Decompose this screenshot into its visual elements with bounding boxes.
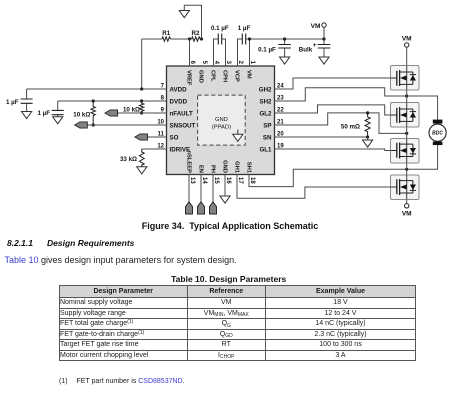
svg-text:24: 24 — [277, 84, 284, 90]
svg-text:GL1: GL1 — [259, 146, 272, 153]
connector tag SO — [135, 134, 148, 140]
wire: pin 6 VREF stub — [189, 39, 191, 66]
svg-text:GND: GND — [198, 70, 204, 83]
svg-text:0.1 µF: 0.1 µF — [211, 25, 229, 32]
svg-text:PH: PH — [209, 165, 215, 173]
svg-text:SP: SP — [263, 122, 271, 129]
resistor R3 10k (nFAULT pullup) — [139, 101, 143, 113]
svg-text:22: 22 — [277, 108, 284, 114]
wire: SH1 net — [249, 145, 438, 187]
wire: PH stub pin 15 — [212, 175, 214, 202]
motor BDC — [429, 120, 446, 146]
ground (pin 16) — [220, 196, 230, 203]
resistor R5 33k (IDRIVE) — [139, 149, 144, 167]
svg-text:(PPAD): (PPAD) — [212, 125, 231, 131]
capacitor C3 0.1uF bypass — [278, 37, 291, 57]
node SH1 junction — [405, 168, 408, 171]
transistor Q4 (high-side 1) — [391, 175, 420, 200]
wire: SO net — [147, 136, 166, 138]
svg-text:GND: GND — [215, 117, 228, 123]
svg-text:SH2: SH2 — [259, 98, 272, 105]
svg-text:21: 21 — [277, 120, 284, 126]
svg-text:Bulk: Bulk — [299, 46, 313, 53]
node VREF junction — [188, 37, 191, 40]
resistor R2 — [192, 37, 200, 41]
connector tag EN — [197, 202, 204, 214]
thermal pad GND (PPAD) — [198, 95, 246, 145]
svg-text:GND: GND — [221, 160, 227, 173]
wire: GND stub pin 16 — [224, 175, 226, 197]
wire: AVDD riser to R1 — [141, 39, 143, 89]
capacitor C4 bulk — [318, 37, 331, 57]
node SN/Rsense junction — [366, 135, 369, 138]
svg-text:1: 1 — [249, 61, 255, 65]
svg-text:DVDD: DVDD — [170, 98, 188, 105]
resistor R6 50m (sense) — [365, 113, 370, 137]
svg-text:CPH: CPH — [222, 70, 228, 82]
svg-text:+: + — [313, 42, 317, 49]
ground (DVDD cap) — [53, 117, 63, 124]
svg-text:VM: VM — [311, 23, 321, 30]
capacitor C1 0.1uF (CPL-CPH) — [214, 34, 226, 67]
ground (top) — [179, 11, 189, 18]
svg-text:SO: SO — [170, 134, 179, 141]
wire: SP net — [275, 113, 407, 133]
transistor Q3 (low-side 1) — [391, 139, 420, 164]
node nFAULT junction — [140, 111, 143, 114]
transistor Q1 (high-side 2) — [391, 66, 420, 91]
svg-text:5: 5 — [201, 61, 207, 65]
wire: GH2 net — [275, 78, 391, 89]
svg-text:GH1: GH1 — [233, 161, 239, 174]
svg-text:SN: SN — [263, 134, 272, 141]
svg-text:SNSOUT: SNSOUT — [170, 122, 196, 129]
svg-text:23: 23 — [277, 96, 284, 102]
wire: GL1 net — [275, 149, 391, 151]
svg-text:EN: EN — [197, 165, 203, 173]
svg-text:10 kΩ: 10 kΩ — [123, 106, 140, 113]
wire: AVDD net — [27, 88, 167, 90]
wire: DVDD net — [58, 100, 167, 102]
connector tag SNSOUT — [75, 122, 88, 128]
ground (0.1uF bypass) — [280, 57, 290, 64]
svg-text:13: 13 — [189, 177, 195, 184]
svg-text:AVDD: AVDD — [170, 86, 188, 93]
svg-text:GL2: GL2 — [259, 110, 272, 117]
ground symbol on PPAD — [233, 130, 243, 142]
svg-text:1 µF: 1 µF — [6, 99, 19, 106]
wire: nSLEEP stub pin 13 — [188, 175, 190, 202]
wire: GL2 net — [275, 105, 391, 115]
svg-text:nFAULT: nFAULT — [170, 110, 193, 117]
capacitor C5 1uF (AVDD) — [21, 89, 33, 112]
svg-text:50 mΩ: 50 mΩ — [341, 124, 360, 131]
capacitor C6 1uF (DVDD) — [52, 101, 64, 117]
wire: SNSOUT net — [87, 124, 166, 126]
connector tag PH — [209, 202, 216, 214]
svg-text:CPL: CPL — [210, 70, 216, 82]
svg-text:17: 17 — [237, 177, 243, 184]
wire: SH2 net — [275, 88, 438, 120]
svg-text:3: 3 — [225, 61, 231, 65]
wire: EN stub pin 14 — [200, 175, 202, 202]
ground (bulk cap) — [319, 57, 329, 64]
svg-text:VCP: VCP — [234, 70, 240, 82]
svg-text:12: 12 — [157, 144, 164, 150]
svg-text:6: 6 — [189, 61, 195, 65]
svg-text:VREF: VREF — [186, 70, 192, 86]
svg-text:SH1: SH1 — [245, 162, 251, 174]
resistor R4 10k (SNSOUT pullup) — [91, 101, 95, 125]
ground (IDRIVE 33k) — [137, 167, 147, 174]
node SNSOUT junction — [92, 123, 95, 126]
svg-text:4: 4 — [213, 61, 219, 65]
node DVDD/R4 junction — [92, 99, 95, 102]
connector tag nSLEEP — [185, 202, 192, 214]
ground (AVDD cap) — [22, 112, 32, 119]
wire: VM bus — [250, 39, 325, 66]
svg-text:VM: VM — [246, 70, 252, 79]
node SP/Rsense junction — [366, 111, 369, 114]
svg-text:nSLEEP: nSLEEP — [185, 150, 191, 173]
node SP column junction — [405, 132, 408, 135]
wire: nFAULT net — [118, 112, 167, 114]
terminal VM (FET column top) — [405, 43, 409, 66]
svg-text:10: 10 — [157, 120, 164, 126]
svg-text:18: 18 — [249, 177, 255, 184]
wire: IDRIVE net — [142, 148, 167, 150]
wire: top ground loop to GND pin 5 — [184, 5, 201, 39]
wire: FET column — [406, 66, 408, 204]
svg-text:2: 2 — [237, 61, 243, 65]
svg-text:R2: R2 — [192, 30, 200, 37]
svg-text:14: 14 — [201, 177, 207, 184]
svg-text:19: 19 — [277, 144, 284, 150]
svg-text:15: 15 — [213, 177, 219, 184]
node GND junction — [200, 37, 203, 40]
ground (sense resistor) — [363, 137, 373, 147]
svg-text:1 µF: 1 µF — [37, 110, 50, 117]
svg-text:11: 11 — [158, 132, 165, 138]
transistor Q2 (low-side 2) — [391, 103, 420, 128]
node AVDD/R1 junction — [140, 87, 143, 90]
svg-text:0.1 µF: 0.1 µF — [258, 46, 276, 53]
node SH2 junction — [405, 94, 408, 97]
schematic SVG placeholder — [0, 0, 474, 227]
terminal VM (FET column bottom) — [405, 204, 409, 208]
svg-text:GH2: GH2 — [259, 86, 272, 93]
node DVDD/R3 junction — [140, 99, 143, 102]
terminal VM (top) — [322, 23, 326, 39]
capacitor C2 1uF (VCP-VM) — [238, 34, 250, 67]
svg-text:VM: VM — [402, 36, 412, 43]
wire: VREF net at top — [142, 38, 202, 40]
svg-text:20: 20 — [277, 132, 284, 138]
svg-text:R1: R1 — [162, 30, 170, 37]
svg-text:33 kΩ: 33 kΩ — [120, 156, 137, 163]
node VM bus junction pin1 — [248, 37, 251, 40]
svg-text:BDC: BDC — [432, 131, 443, 137]
IC U1 body — [167, 66, 275, 175]
svg-text:1 µF: 1 µF — [238, 25, 251, 32]
wire: GH1 net — [237, 175, 391, 199]
resistor R1 — [162, 37, 170, 41]
svg-text:16: 16 — [225, 177, 231, 184]
wire: SN net — [275, 136, 368, 138]
svg-text:VM: VM — [402, 211, 412, 218]
connector tag nFAULT — [105, 110, 118, 116]
svg-text:10 kΩ: 10 kΩ — [73, 112, 90, 119]
